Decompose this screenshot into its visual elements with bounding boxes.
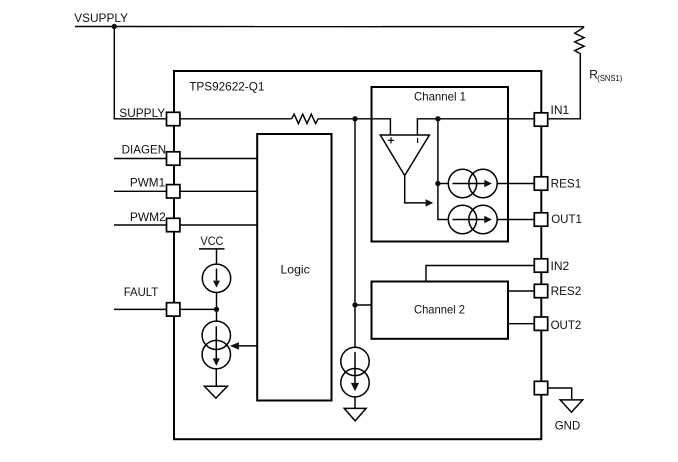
current source CS2 (OUT1 row) [448,205,497,233]
pin box RES2 [534,284,547,297]
op-amp U2 [380,135,429,176]
pin box PWM1 [167,185,180,198]
pin box IN2 [534,259,547,272]
wire CS2 to OUT1 [497,219,534,221]
svg-text:Channel 2: Channel 2 [414,303,465,317]
junction FAULT node dot [214,307,219,312]
svg-text:PWM2: PWM2 [130,210,166,224]
pin box PWM2 [167,218,180,231]
svg-text:IN2: IN2 [551,259,570,273]
wire PWM2 [114,224,167,226]
IC U1 TPS92622-Q1 outline [174,71,541,439]
wire VSUPPLY drop to SUPPLY [114,27,166,119]
wire CS1 to RES1 [497,183,534,185]
wire RSNS bottom lead [579,53,581,119]
label R(SNS1) [589,68,622,84]
resistor internal sense [292,114,318,124]
wire PWM1 [114,190,167,192]
svg-text:RES1: RES1 [551,176,582,190]
pin box RES1 [534,177,547,190]
svg-text:TPS92622-Q1: TPS92622-Q1 [189,80,265,94]
wire VCC to CS4 [216,249,218,264]
svg-text:Channel 1: Channel 1 [414,90,466,104]
svg-text:(SNS1): (SNS1) [597,73,622,83]
wire node B down to current sources [438,119,449,220]
wire CS3 to ground [354,397,356,409]
svg-text:Logic: Logic [281,262,310,276]
wire DIAGEN [114,158,167,160]
svg-text:RES2: RES2 [551,284,582,298]
current source CS5 (FAULT pull-down) [202,321,230,369]
block Channel 1 [372,87,509,242]
ground left [204,386,227,398]
wire op-amp output [405,176,426,203]
pin box IN1 [534,113,547,126]
wire IN2 [426,266,534,282]
wire RES2 [508,290,534,292]
wire dot to CS1 [438,183,449,185]
resistor R(SNS1) [575,27,584,53]
wire center rail node A down [354,119,356,348]
current source CS3 (center bias) [341,347,369,397]
wire GND pin to ground [548,388,572,400]
current source CS1 (RES1 row) [448,169,497,197]
pin box DIAGEN [167,152,180,165]
ground center [344,408,366,421]
wire op-amp minus input to IN1 [417,119,534,135]
block Channel 2 [372,282,509,339]
svg-text:GND: GND [555,419,581,433]
junction VSUPPLY dot [112,24,117,29]
pin box GND [534,381,547,394]
junction node B dot [435,116,440,121]
current source CS4 (VCC pull-up) [202,264,230,292]
wire SUPPLY to internal resistor [180,118,292,120]
wire VSUPPLY horizontal rail [75,26,584,28]
op-amp plus mark [388,137,394,143]
svg-text:FAULT: FAULT [124,285,159,299]
pin box SUPPLY [167,112,180,125]
arrowhead op-amp output [426,199,434,206]
arrow Logic to CS5 [239,345,257,347]
wire to Channel 2 [355,304,372,306]
svg-text:DIAGEN: DIAGEN [122,143,167,157]
junction RES1 row dot [435,181,440,186]
ground right [560,400,583,412]
block Logic [257,134,331,401]
power VCC bar [199,248,225,250]
wire CS5 to ground [215,369,217,387]
wire OUT2 [508,323,534,325]
wire CS4 to FAULT node [216,293,218,321]
wire FAULT [114,308,167,310]
wire resistor to op-amp plus input [318,119,390,135]
pin box OUT1 [534,213,547,226]
pin box OUT2 [534,317,547,330]
svg-text:PWM1: PWM1 [130,176,166,190]
junction channel2 feed dot [352,302,357,307]
svg-text:VSUPPLY: VSUPPLY [74,11,128,25]
svg-text:VCC: VCC [201,234,224,248]
wire IN1 to RSNS [548,118,581,120]
pin box FAULT [167,303,180,316]
op-amp minus mark [417,138,419,143]
junction node A dot [352,116,357,121]
svg-text:OUT2: OUT2 [551,318,582,332]
svg-text:SUPPLY: SUPPLY [119,106,165,120]
svg-text:IN1: IN1 [551,103,570,117]
svg-text:OUT1: OUT1 [551,212,582,226]
